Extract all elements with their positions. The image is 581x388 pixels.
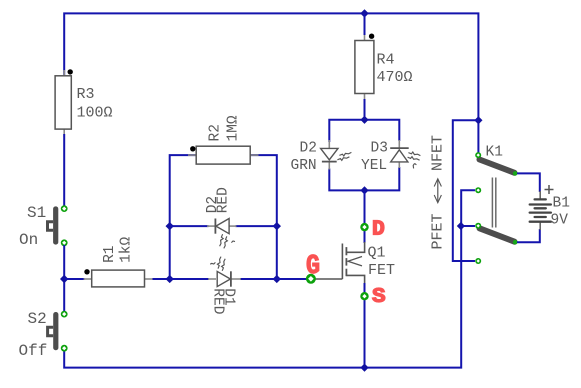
svg-text:NFET: NFET <box>430 135 447 171</box>
wire LED loop right vertical <box>250 155 277 279</box>
wire R1 to loop-left junction <box>153 278 170 280</box>
wire S to bottom rail <box>364 283 366 368</box>
svg-text:1MΩ: 1MΩ <box>226 115 242 141</box>
terminal K1 t1 <box>475 152 481 158</box>
svg-text:470Ω: 470Ω <box>377 69 413 86</box>
svg-text:K1: K1 <box>486 144 503 160</box>
terminal S <box>360 292 368 300</box>
wire D terminal to FET drain <box>364 227 366 243</box>
resistor R4 <box>355 33 413 101</box>
svg-text:R3: R3 <box>77 86 95 103</box>
svg-text:R4: R4 <box>377 52 395 69</box>
wire top rail <box>64 13 478 155</box>
label PFET/NFET <box>430 135 447 250</box>
resistor R3 <box>55 69 112 137</box>
svg-text:D2: D2 <box>300 140 317 156</box>
svg-text:R2: R2 <box>208 124 224 141</box>
svg-text:1kΩ: 1kΩ <box>119 236 135 262</box>
switch S1 <box>19 204 58 249</box>
LED D1 (RED) <box>208 257 241 315</box>
wire D1 branch <box>170 278 209 280</box>
node bottom rail / source <box>360 364 368 372</box>
node loop-right / D2 branch <box>273 222 281 230</box>
terminal D <box>360 223 368 231</box>
wire D2-red branch <box>170 225 209 227</box>
svg-text:RED: RED <box>209 288 225 314</box>
LED D2 (GRN) <box>291 140 352 174</box>
svg-text:FET: FET <box>368 262 395 279</box>
svg-text:B1: B1 <box>553 196 570 212</box>
terminal S1 pin1 <box>61 205 68 212</box>
node K1 top junction <box>474 116 482 124</box>
svg-text:RED: RED <box>215 187 231 213</box>
lead D3 YEL cathode <box>398 140 400 148</box>
wire R4 to loop junction <box>364 99 366 120</box>
svg-text:S: S <box>372 286 386 309</box>
node K1 bottom-left junction <box>457 222 465 230</box>
terminal S1 pin2 <box>61 239 68 246</box>
wire GRN/YEL loop bottom <box>329 167 399 190</box>
wire gate row to G <box>277 278 309 280</box>
wire loop bottom to D terminal <box>364 190 366 227</box>
terminal G <box>306 274 316 284</box>
wire R3 to S1 <box>63 134 65 206</box>
node loop-right / gate row <box>273 275 281 283</box>
node loop bottom <box>360 186 368 194</box>
battery B1 <box>530 185 570 230</box>
svg-text:9V: 9V <box>551 213 569 229</box>
svg-text:PFET: PFET <box>430 213 447 249</box>
svg-text:YEL: YEL <box>361 158 387 174</box>
LED D3 (YEL) <box>361 140 420 174</box>
terminal K1 t2 <box>475 187 481 193</box>
wire K1 to battery top <box>517 173 540 192</box>
wire K1 to battery bottom <box>517 229 540 242</box>
wire K1 junction to left drop <box>453 120 479 261</box>
switch S2 <box>19 310 59 360</box>
svg-text:On: On <box>19 231 38 249</box>
wire LED loop left vertical <box>170 155 197 279</box>
wire K1 coil left <box>461 190 475 228</box>
wire GRN/YEL loop top <box>329 120 399 142</box>
svg-text:R1: R1 <box>102 245 118 262</box>
node loop-left / D2 branch <box>166 222 174 230</box>
resistor R2 <box>188 115 259 164</box>
lead D2 GRN cathode <box>328 162 330 169</box>
node loop-left / R1-D1 row <box>166 275 174 283</box>
svg-text:Off: Off <box>19 342 48 360</box>
wire top junction to R4 <box>364 13 366 35</box>
wire bottom rail <box>64 226 461 368</box>
transistor Q1 <box>314 242 395 283</box>
resistor R1 <box>84 236 154 286</box>
svg-text:S1: S1 <box>27 204 46 222</box>
lead D3 YEL anode <box>398 162 400 168</box>
wire junction to t3 <box>461 225 475 227</box>
svg-text:D: D <box>372 218 385 241</box>
svg-text:S2: S2 <box>28 310 47 328</box>
wire S1 to S2 <box>63 245 65 312</box>
lead D2 GRN anode <box>328 140 330 148</box>
terminal S2 pin2 <box>61 345 68 352</box>
relay K1 <box>480 144 518 244</box>
node loop top <box>360 116 368 124</box>
LED D2 (RED) <box>205 187 237 248</box>
terminal S2 pin1 <box>61 311 68 318</box>
svg-text:GRN: GRN <box>291 158 317 174</box>
svg-text:Q1: Q1 <box>368 245 386 262</box>
arrow PFET-NFET <box>434 179 441 203</box>
terminal K1 t3 <box>475 223 481 229</box>
svg-text:D3: D3 <box>371 140 388 156</box>
terminal K1 t4 <box>475 258 481 264</box>
wire R1 row left <box>64 278 84 280</box>
node top rail / R4 junction <box>360 9 368 17</box>
svg-text:100Ω: 100Ω <box>77 105 113 122</box>
node left rail / R1 junction <box>60 275 68 283</box>
